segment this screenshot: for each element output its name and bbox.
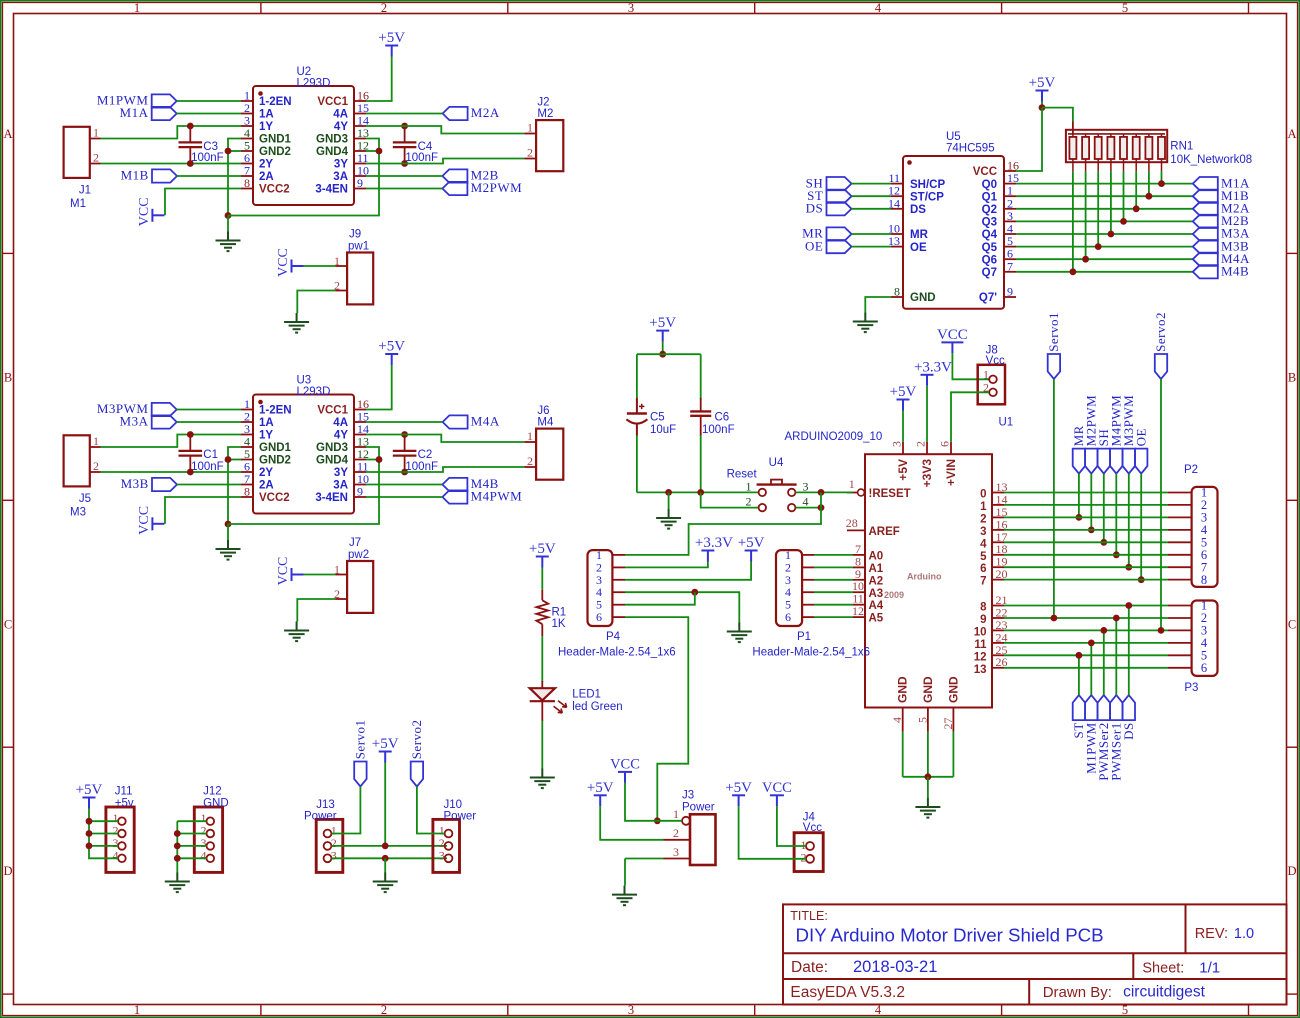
IC U5 74HC595 body bbox=[903, 156, 1004, 309]
svg-text:+5V: +5V bbox=[372, 736, 399, 752]
power +5V bbox=[594, 795, 607, 806]
power +5V bbox=[745, 551, 758, 562]
U2 pin-1 marker dot bbox=[258, 91, 263, 96]
svg-text:4: 4 bbox=[113, 848, 119, 862]
J3 pin1 circle bbox=[682, 817, 690, 825]
net flag M1A bbox=[1193, 177, 1218, 190]
junction GND4 bbox=[376, 148, 383, 155]
svg-text:GND: GND bbox=[910, 292, 936, 304]
wire GND1 down bbox=[228, 139, 241, 216]
svg-text:VCC2: VCC2 bbox=[259, 492, 290, 504]
junction J12 bbox=[174, 830, 181, 837]
wire Q6 net bbox=[1016, 258, 1193, 260]
svg-text:C6: C6 bbox=[715, 412, 730, 424]
RN1 resistor element 6 bbox=[1133, 137, 1140, 159]
junction Servo2 row23 bbox=[1158, 627, 1165, 634]
wire RN1 lead to Q3 bbox=[1123, 171, 1125, 221]
wire J12 pin1 bbox=[177, 820, 206, 822]
wire PWMSer2 up bbox=[1103, 630, 1105, 695]
connector J4 body bbox=[794, 833, 823, 872]
junction P4 gnd bbox=[691, 589, 698, 596]
wire to ground bbox=[227, 216, 229, 232]
svg-text:Reset: Reset bbox=[727, 469, 758, 481]
J4 pin circles bbox=[806, 842, 814, 850]
net flag M3B bbox=[152, 478, 177, 491]
ground bbox=[216, 540, 241, 560]
svg-text:74HC595: 74HC595 bbox=[946, 143, 995, 155]
junction RN1-Q4 bbox=[1108, 231, 1115, 238]
U5 pin stubs left bbox=[891, 184, 903, 297]
svg-text:DS: DS bbox=[806, 201, 824, 216]
U3 pin-1 marker dot bbox=[258, 400, 263, 405]
svg-text:A4: A4 bbox=[869, 600, 884, 612]
wire GND3 bbox=[366, 139, 379, 152]
svg-text:Sheet:: Sheet: bbox=[1142, 961, 1184, 977]
wire +5V to VCC1 pin16 bbox=[366, 365, 392, 410]
wire +5V to J11 pins bbox=[89, 809, 118, 859]
svg-text:2: 2 bbox=[914, 441, 928, 447]
svg-text:Q0: Q0 bbox=[982, 179, 997, 191]
svg-text:3: 3 bbox=[628, 1, 634, 15]
junction GND2 bbox=[225, 148, 232, 155]
svg-text:Q6: Q6 bbox=[982, 254, 997, 266]
wire OE down bbox=[1140, 474, 1142, 580]
svg-text:A5: A5 bbox=[869, 613, 884, 625]
wire row to P3 bbox=[1004, 617, 1168, 619]
wire OE to U5 bbox=[852, 246, 892, 248]
RN1 resistor element 7 bbox=[1145, 137, 1152, 159]
svg-text:1: 1 bbox=[93, 434, 99, 448]
svg-text:4A: 4A bbox=[333, 417, 348, 429]
svg-text:M2A: M2A bbox=[471, 105, 500, 120]
net flag M2PWM (top group) bbox=[1085, 449, 1097, 474]
wire DS up bbox=[1128, 606, 1130, 696]
power VCC at J7 bbox=[292, 568, 304, 581]
Arduino AREF pin bbox=[847, 529, 865, 531]
IC ARDUINO2009_10 body bbox=[865, 454, 992, 707]
wire to ground bbox=[668, 492, 670, 509]
net flag M4PWM (top group) bbox=[1110, 449, 1122, 474]
svg-text:Vcc: Vcc bbox=[803, 822, 822, 834]
ground at J9 bbox=[284, 313, 309, 333]
pushbutton U4 bbox=[757, 480, 797, 512]
svg-text:12: 12 bbox=[974, 651, 987, 663]
wire ground bus to GND3/4 bbox=[228, 151, 379, 216]
ground at U5 bbox=[853, 313, 878, 333]
svg-text:TITLE:: TITLE: bbox=[790, 909, 828, 923]
svg-text:4A: 4A bbox=[333, 109, 348, 121]
net flag OE bbox=[827, 240, 852, 253]
wire M4PWM down bbox=[1115, 474, 1117, 555]
net flag Servo1 bbox=[354, 762, 366, 787]
RN1 resistor element 2 bbox=[1082, 137, 1089, 159]
svg-text:4: 4 bbox=[201, 848, 207, 862]
Arduino A0-A5 pins bbox=[853, 555, 865, 617]
wire M3PWM down bbox=[1128, 474, 1130, 568]
wire row to P3 bbox=[1004, 654, 1168, 656]
wire P4 pin4 to ground bbox=[625, 592, 739, 622]
svg-text:L293D: L293D bbox=[297, 78, 331, 90]
wire 4A to M2A bbox=[366, 113, 443, 115]
svg-text:M4B: M4B bbox=[1221, 264, 1249, 279]
wire Q2 net bbox=[1016, 208, 1193, 210]
wire 4A to M4A bbox=[366, 421, 443, 423]
junction M1PWM bbox=[1088, 640, 1095, 647]
net flag M2A bbox=[443, 107, 468, 120]
svg-text:4Y: 4Y bbox=[334, 430, 348, 442]
svg-text:2: 2 bbox=[381, 1003, 387, 1017]
junction C4 bottom bbox=[401, 160, 408, 167]
junction +5V J13/J10 bbox=[382, 843, 389, 850]
svg-text:pw2: pw2 bbox=[348, 549, 369, 561]
net flag SH (top group) bbox=[1098, 449, 1110, 474]
wire GND lead bbox=[902, 732, 904, 777]
wire +5V to R1 bbox=[541, 568, 543, 590]
U2 pin stubs right bbox=[354, 101, 366, 189]
svg-text:1A: 1A bbox=[259, 417, 274, 429]
J13 pin circles bbox=[324, 830, 332, 863]
svg-text:1: 1 bbox=[527, 429, 533, 443]
junction +5V cap node bbox=[659, 351, 666, 358]
capacitor C4 bbox=[393, 126, 417, 164]
wire M1PWM up bbox=[1090, 643, 1092, 695]
wire J7 pin2 to ground bbox=[297, 599, 335, 622]
svg-text:OE: OE bbox=[910, 242, 927, 254]
wire row to P2 bbox=[1004, 516, 1168, 518]
svg-text:J3: J3 bbox=[682, 790, 694, 802]
wire 3A to M4B bbox=[366, 484, 442, 486]
wire SH to U5 bbox=[852, 183, 892, 185]
connector P3 body bbox=[1192, 601, 1218, 676]
wire GND2 join bbox=[228, 459, 241, 461]
net flag M2PWM bbox=[442, 182, 467, 195]
wire VCC to J9 pin1 bbox=[304, 265, 336, 267]
junction +5V node bbox=[1039, 104, 1046, 111]
net flag SH bbox=[827, 177, 852, 190]
svg-text:M3A: M3A bbox=[120, 414, 149, 429]
wire VCC to J3 pin1 bbox=[625, 783, 657, 821]
wire Q5 net bbox=[1016, 246, 1193, 248]
svg-text:2: 2 bbox=[980, 513, 986, 525]
svg-text:DIY Arduino Motor Driver Shiel: DIY Arduino Motor Driver Shield PCB bbox=[796, 925, 1104, 946]
svg-text:M1B: M1B bbox=[121, 168, 149, 183]
wire to ground bbox=[927, 777, 929, 799]
svg-text:+5V: +5V bbox=[738, 535, 765, 551]
svg-text:Servo2: Servo2 bbox=[1153, 312, 1168, 352]
net flag M4B bbox=[1193, 265, 1218, 278]
svg-text:L293D: L293D bbox=[297, 386, 331, 398]
svg-text:12: 12 bbox=[852, 604, 864, 618]
wire to ground bbox=[227, 524, 229, 540]
svg-text:Q5: Q5 bbox=[982, 242, 998, 254]
net flag M3A bbox=[152, 415, 177, 428]
RN1 common pin lead bbox=[1072, 122, 1074, 134]
wire U4 pin3 to !RESET bbox=[795, 491, 853, 493]
J2 pin stubs bbox=[524, 134, 536, 159]
connector J6 body bbox=[536, 429, 563, 480]
power +3.3V bbox=[701, 551, 714, 562]
junction SH bbox=[1100, 539, 1107, 546]
wire RN1 lead to Q5 bbox=[1097, 171, 1099, 246]
svg-text:Q3: Q3 bbox=[982, 217, 997, 229]
junction RN1-Q3 bbox=[1120, 218, 1127, 225]
junction GND4 bbox=[376, 456, 383, 463]
svg-text:pw1: pw1 bbox=[348, 241, 369, 253]
wire RN1 lead to Q2 bbox=[1135, 171, 1137, 208]
svg-text:J1: J1 bbox=[79, 185, 91, 197]
connector J13 body bbox=[316, 819, 343, 872]
wire P1 pin to Arduino bbox=[814, 554, 853, 556]
wire J3 pin3 bbox=[625, 858, 664, 860]
wire J13 pin3 to J10 pin3 bbox=[332, 857, 448, 859]
net flag OE (top group) bbox=[1135, 449, 1147, 474]
svg-text:1/1: 1/1 bbox=[1199, 960, 1220, 977]
junction J11 bbox=[86, 843, 93, 850]
svg-text:4Y: 4Y bbox=[334, 121, 348, 133]
wire RN1 lead to Q6 bbox=[1085, 171, 1087, 259]
junction RN1-Q6 bbox=[1082, 256, 1089, 263]
wire Q4 net bbox=[1016, 233, 1193, 235]
power +5V bbox=[1036, 91, 1049, 102]
wire Q7 net bbox=[1016, 271, 1193, 273]
svg-text:3: 3 bbox=[890, 441, 904, 447]
svg-text:A1: A1 bbox=[869, 563, 884, 575]
connector P4 body bbox=[588, 550, 613, 626]
svg-text:Power: Power bbox=[682, 802, 715, 814]
connector J11 body bbox=[106, 807, 134, 872]
wire GND lead bbox=[927, 732, 929, 777]
wire row to P3 bbox=[1004, 629, 1168, 631]
svg-text:M3B: M3B bbox=[121, 476, 149, 491]
svg-text:J9: J9 bbox=[349, 229, 361, 241]
svg-text:+5V: +5V bbox=[890, 384, 917, 400]
svg-text:2: 2 bbox=[93, 151, 99, 165]
svg-text:J11: J11 bbox=[115, 786, 133, 798]
junction MR bbox=[1076, 514, 1083, 521]
wire P1 pin to Arduino bbox=[814, 591, 853, 593]
net flag ST (bottom group) bbox=[1073, 695, 1085, 720]
junction GND bus bbox=[925, 773, 932, 780]
wire GND1 down bbox=[228, 447, 241, 524]
wire J5 pin2 to 2Y bbox=[101, 471, 242, 473]
svg-text:D: D bbox=[3, 864, 12, 878]
svg-text:3: 3 bbox=[331, 848, 337, 862]
wire +5V stem to node bbox=[662, 342, 664, 355]
net flag M1PWM bbox=[152, 94, 177, 107]
svg-text:J12: J12 bbox=[203, 786, 222, 798]
wire +5V stem bbox=[1041, 102, 1043, 108]
wire VCC2 pin8 bbox=[165, 497, 241, 524]
svg-text:+3.3V: +3.3V bbox=[914, 359, 952, 375]
wire +5V to U5 VCC bbox=[1016, 108, 1042, 171]
svg-text:+VIN: +VIN bbox=[944, 459, 958, 486]
junction Servo1 row22 bbox=[1051, 615, 1058, 622]
wire J1 pin2 to 2Y bbox=[101, 163, 242, 165]
svg-text:Date:: Date: bbox=[791, 959, 828, 976]
svg-text:EasyEDA V5.3.2: EasyEDA V5.3.2 bbox=[790, 984, 905, 1001]
svg-text:5: 5 bbox=[980, 551, 987, 563]
junction ST bbox=[1076, 652, 1083, 659]
svg-text:4: 4 bbox=[803, 495, 809, 509]
svg-text:J6: J6 bbox=[537, 405, 549, 417]
junction C1 bottom bbox=[187, 469, 194, 476]
svg-text:Power: Power bbox=[304, 811, 337, 823]
svg-text:ARDUINO2009_10: ARDUINO2009_10 bbox=[785, 431, 883, 443]
svg-text:+3V3: +3V3 bbox=[920, 459, 934, 488]
wire C5 to gnd bus bbox=[636, 435, 638, 492]
junction C3 top bbox=[187, 123, 194, 130]
svg-text:J2: J2 bbox=[537, 97, 549, 109]
svg-text:Q7': Q7' bbox=[979, 292, 997, 304]
svg-text:3A: 3A bbox=[333, 171, 348, 183]
U3 pin stubs left bbox=[241, 410, 253, 498]
svg-text:4: 4 bbox=[980, 538, 987, 550]
Arduino top pin stubs bbox=[903, 442, 951, 454]
svg-text:A: A bbox=[1287, 127, 1296, 141]
ground below LED1 bbox=[530, 769, 555, 789]
wire P1 pin to Arduino bbox=[814, 616, 853, 618]
svg-text:OE: OE bbox=[805, 238, 823, 253]
junction RN1-Q7 bbox=[1070, 268, 1077, 275]
junction reset net 2 bbox=[818, 504, 825, 511]
wire Q1 net bbox=[1016, 195, 1193, 197]
wire J13 pin1 to Servo1 bbox=[332, 787, 361, 834]
svg-text:J5: J5 bbox=[79, 493, 91, 505]
junction gnd J13/J10 bbox=[382, 855, 389, 862]
J1 pin stubs bbox=[90, 139, 101, 164]
wire J12 pin bbox=[177, 833, 206, 835]
svg-text:VCC: VCC bbox=[610, 756, 640, 772]
net flag M1B bbox=[1193, 190, 1218, 203]
power +5V bbox=[385, 46, 398, 57]
svg-text:Vcc: Vcc bbox=[986, 355, 1005, 367]
junction C2 bottom bbox=[401, 469, 408, 476]
wire 4Y to Jright pin1 bbox=[366, 435, 524, 443]
IC U3 L293D body bbox=[253, 395, 354, 514]
svg-text:3: 3 bbox=[803, 480, 809, 494]
svg-text:1-2EN: 1-2EN bbox=[259, 96, 292, 108]
svg-text:P2: P2 bbox=[1184, 464, 1198, 476]
wire Q3 net bbox=[1016, 220, 1193, 222]
svg-text:GND3: GND3 bbox=[316, 442, 348, 454]
svg-text:6: 6 bbox=[938, 441, 952, 447]
svg-text:M2: M2 bbox=[537, 108, 553, 120]
U5 pin stubs right bbox=[1004, 171, 1016, 297]
ground bbox=[216, 232, 241, 252]
svg-text:10: 10 bbox=[974, 626, 987, 638]
net flag PWMSer2 (bottom group) bbox=[1098, 695, 1110, 720]
svg-text:100nF: 100nF bbox=[405, 461, 438, 473]
wire P1 pin to Arduino bbox=[814, 604, 853, 606]
wire GND4 bbox=[366, 150, 379, 152]
svg-text:1: 1 bbox=[983, 368, 989, 382]
ground at J3 bbox=[612, 886, 637, 906]
RN1 resistor element 1 bbox=[1069, 137, 1076, 159]
wire RN1 lead to Q7 bbox=[1072, 171, 1074, 271]
svg-text:1: 1 bbox=[980, 501, 987, 513]
svg-text:U3: U3 bbox=[297, 375, 312, 387]
svg-text:2: 2 bbox=[527, 146, 533, 160]
net flag PWMSer1 (bottom group) bbox=[1110, 695, 1122, 720]
P4 pin stubs bbox=[612, 555, 625, 617]
junction J3 pin1 node bbox=[654, 817, 661, 824]
svg-text:A: A bbox=[3, 127, 12, 141]
wire J13 pin2 to J10 pin2 bbox=[332, 845, 448, 847]
J5 pin stubs bbox=[90, 447, 101, 472]
svg-text:1: 1 bbox=[746, 480, 752, 494]
svg-text:Q4: Q4 bbox=[982, 229, 998, 241]
svg-text:VCC1: VCC1 bbox=[317, 96, 348, 108]
title block bbox=[783, 904, 1287, 1004]
junction C1 top bbox=[187, 431, 194, 438]
capacitor C6 bbox=[690, 398, 711, 436]
wire J11 pin bbox=[89, 820, 118, 822]
svg-text:6: 6 bbox=[785, 610, 791, 624]
svg-text:+5V: +5V bbox=[896, 459, 910, 481]
svg-text:1K: 1K bbox=[552, 618, 566, 630]
wire J10 pin1 to Servo2 bbox=[417, 787, 445, 834]
wire M1PWM to pin1 bbox=[177, 100, 241, 102]
wire C6 to gnd bus bbox=[700, 435, 702, 492]
power VCC bbox=[152, 517, 164, 530]
wire P4 pin5 bbox=[625, 592, 695, 605]
svg-text:3: 3 bbox=[673, 845, 679, 859]
svg-text:+5V: +5V bbox=[378, 30, 405, 46]
svg-text:1Y: 1Y bbox=[259, 430, 273, 442]
svg-text:6: 6 bbox=[980, 563, 986, 575]
ground at reset bbox=[656, 509, 681, 529]
net flag M4A bbox=[1193, 253, 1218, 266]
wire J3 pin3 to ground bbox=[624, 859, 626, 886]
svg-text:VCC2: VCC2 bbox=[259, 184, 290, 196]
svg-text:+5v: +5v bbox=[115, 798, 134, 810]
capacitor C3 bbox=[179, 126, 203, 164]
wire J5 pin1 to 1Y bbox=[101, 435, 242, 448]
svg-text:8: 8 bbox=[244, 176, 250, 190]
net flag DS (bottom group) bbox=[1123, 695, 1135, 720]
svg-text:MR: MR bbox=[910, 229, 929, 241]
wire P1 pin to Arduino bbox=[814, 566, 853, 568]
svg-text:GND: GND bbox=[203, 798, 229, 810]
net flag M2A bbox=[1193, 202, 1218, 215]
Arduino !RESET pin bbox=[858, 489, 865, 496]
wire RN1 lead to Q0 bbox=[1161, 171, 1163, 183]
connector J9 body bbox=[347, 253, 373, 305]
wire P1 pin to Arduino bbox=[814, 579, 853, 581]
J9 pin stubs bbox=[335, 266, 347, 291]
svg-text:DS: DS bbox=[1121, 722, 1136, 740]
svg-text:C3: C3 bbox=[203, 141, 218, 153]
net flag M2B bbox=[442, 169, 467, 182]
wire Servo2 down bbox=[1160, 379, 1162, 630]
svg-text:3A: 3A bbox=[333, 480, 348, 492]
wire ST to U5 bbox=[852, 195, 892, 197]
wire +3.3V to P4 pin2 bbox=[625, 562, 708, 568]
J7 pin stubs bbox=[335, 575, 347, 600]
svg-text:2A: 2A bbox=[259, 171, 274, 183]
svg-text:Q1: Q1 bbox=[982, 191, 998, 203]
svg-text:VCC: VCC bbox=[762, 780, 792, 796]
connector P2 body bbox=[1192, 487, 1218, 587]
wire J11 pin bbox=[89, 845, 118, 847]
junction gnd tap bbox=[665, 489, 672, 496]
wire J12 pin bbox=[177, 845, 206, 847]
svg-text:2Y: 2Y bbox=[259, 159, 273, 171]
svg-text:U4: U4 bbox=[769, 457, 784, 469]
IC U2 L293D body bbox=[253, 86, 354, 205]
wire row to P3 bbox=[1004, 667, 1168, 669]
resistor R1 bbox=[536, 590, 548, 636]
